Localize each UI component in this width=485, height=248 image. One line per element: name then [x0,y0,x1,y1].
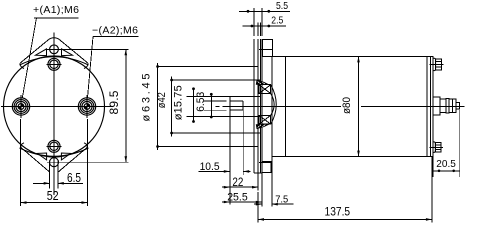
svg-text:137.5: 137.5 [325,206,351,218]
svg-text:20.5: 20.5 [436,158,456,170]
svg-text:22: 22 [232,177,243,189]
svg-text:6.5: 6.5 [67,170,81,185]
svg-text:5.5: 5.5 [276,0,288,12]
svg-text:ø15.75: ø15.75 [172,85,184,120]
svg-text:2.5: 2.5 [271,14,283,26]
svg-text:ø42: ø42 [156,92,168,108]
svg-text:52: 52 [47,188,59,203]
svg-text:7.5: 7.5 [275,193,288,205]
svg-text:6.53: 6.53 [195,92,207,112]
svg-text:−(A2);M6: −(A2);M6 [92,25,138,37]
svg-text:ø80: ø80 [341,97,353,114]
svg-text:+(A1);M6: +(A1);M6 [33,4,79,16]
svg-text:89.5: 89.5 [107,90,121,114]
svg-text:25.5: 25.5 [227,191,248,203]
svg-text:10.5: 10.5 [200,161,220,173]
